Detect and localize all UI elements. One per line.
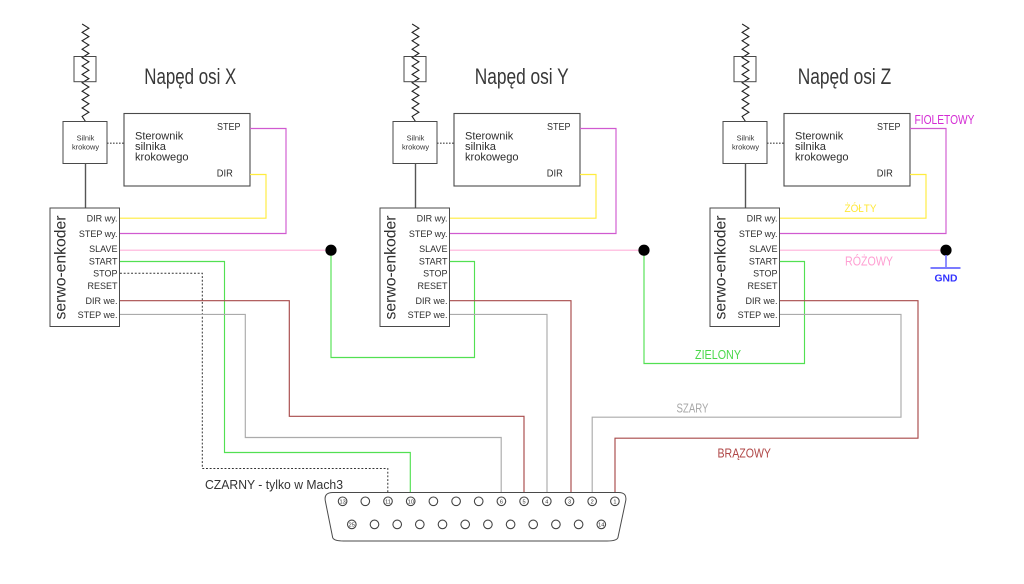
- svg-text:3: 3: [568, 499, 571, 505]
- svg-text:FIOLETOWY: FIOLETOWY: [915, 112, 975, 127]
- svg-text:STOP: STOP: [423, 269, 447, 279]
- svg-text:serwo-enkoder: serwo-enkoder: [53, 216, 70, 320]
- svg-text:DIR: DIR: [217, 168, 233, 179]
- svg-text:serwo-enkoder: serwo-enkoder: [383, 216, 400, 320]
- svg-text:STEP: STEP: [217, 122, 241, 133]
- svg-text:DIR we.: DIR we.: [415, 296, 447, 306]
- svg-text:5: 5: [523, 499, 526, 505]
- svg-text:krokowy: krokowy: [72, 142, 99, 151]
- svg-text:RESET: RESET: [87, 281, 118, 291]
- svg-text:6: 6: [500, 499, 503, 505]
- svg-text:krokowego: krokowego: [795, 152, 849, 164]
- svg-text:SZARY: SZARY: [677, 402, 710, 416]
- svg-text:14: 14: [598, 523, 604, 529]
- svg-text:STEP wy.: STEP wy.: [739, 229, 778, 239]
- svg-text:2: 2: [591, 499, 594, 505]
- svg-text:ZIELONY: ZIELONY: [695, 348, 742, 362]
- svg-text:krokowego: krokowego: [135, 152, 189, 164]
- svg-text:DIR wy.: DIR wy.: [87, 214, 118, 224]
- svg-text:STEP we.: STEP we.: [738, 310, 778, 320]
- svg-text:SLAVE: SLAVE: [419, 244, 447, 254]
- svg-text:BRĄZOWY: BRĄZOWY: [718, 446, 772, 460]
- svg-text:Napęd osi X: Napęd osi X: [144, 64, 236, 89]
- svg-text:STOP: STOP: [93, 269, 117, 279]
- svg-text:STEP: STEP: [547, 122, 571, 133]
- svg-text:krokowy: krokowy: [732, 142, 759, 151]
- svg-text:DIR we.: DIR we.: [745, 296, 777, 306]
- svg-text:RESET: RESET: [417, 281, 448, 291]
- svg-text:STEP wy.: STEP wy.: [79, 229, 118, 239]
- svg-text:RÓŻOWY: RÓŻOWY: [845, 253, 894, 268]
- svg-text:13: 13: [339, 499, 345, 505]
- svg-text:Napęd osi Z: Napęd osi Z: [798, 64, 892, 89]
- svg-text:STEP we.: STEP we.: [78, 310, 118, 320]
- svg-text:STOP: STOP: [753, 269, 777, 279]
- svg-text:SLAVE: SLAVE: [89, 244, 117, 254]
- svg-text:serwo-enkoder: serwo-enkoder: [713, 216, 730, 320]
- svg-text:ŻÓŁTY: ŻÓŁTY: [845, 202, 878, 215]
- svg-text:STEP: STEP: [877, 122, 901, 133]
- svg-text:SLAVE: SLAVE: [749, 244, 777, 254]
- svg-text:GND: GND: [935, 273, 958, 285]
- svg-text:START: START: [89, 257, 118, 267]
- svg-text:4: 4: [545, 499, 548, 505]
- svg-text:STEP wy.: STEP wy.: [409, 229, 448, 239]
- svg-text:RESET: RESET: [747, 281, 778, 291]
- svg-text:CZARNY - tylko w Mach3: CZARNY - tylko w Mach3: [205, 478, 343, 492]
- svg-text:11: 11: [385, 499, 391, 505]
- svg-text:DIR we.: DIR we.: [85, 296, 117, 306]
- svg-text:START: START: [419, 257, 448, 267]
- svg-text:DIR wy.: DIR wy.: [417, 214, 448, 224]
- svg-text:DIR: DIR: [547, 168, 563, 179]
- svg-text:DIR wy.: DIR wy.: [747, 214, 778, 224]
- svg-text:25: 25: [349, 523, 355, 529]
- svg-text:Napęd osi Y: Napęd osi Y: [475, 64, 569, 89]
- svg-text:krokowy: krokowy: [402, 142, 429, 151]
- svg-text:DIR: DIR: [877, 168, 893, 179]
- svg-text:START: START: [749, 257, 778, 267]
- svg-text:1: 1: [613, 499, 616, 505]
- svg-text:10: 10: [408, 499, 414, 505]
- svg-text:STEP we.: STEP we.: [408, 310, 448, 320]
- svg-text:krokowego: krokowego: [465, 152, 519, 164]
